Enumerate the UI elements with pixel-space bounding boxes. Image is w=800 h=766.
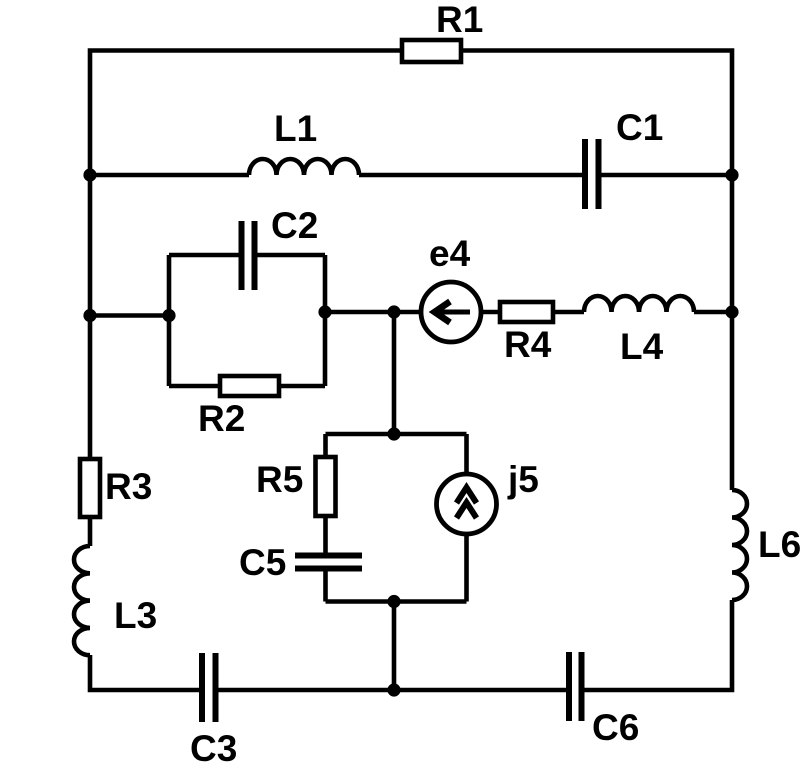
- wire: row3 right segment (block to R4/L4): [325, 310, 584, 315]
- junction: bottom wire center node: [387, 683, 400, 696]
- wire: parallel block C2/R2 bottom edge: [169, 384, 325, 389]
- capacitor C6: [569, 652, 582, 721]
- junction: J5 block top node: [387, 427, 400, 440]
- wire: bottom-left corner segment: [90, 655, 199, 690]
- junction: right x row3: [725, 305, 738, 318]
- svg-text:R2: R2: [198, 398, 245, 439]
- svg-text:C5: C5: [239, 542, 286, 583]
- wire: outer frame (left vertical top, top side, right vertical top): [90, 51, 732, 547]
- current source J5: [437, 474, 497, 534]
- junction: J5 block bottom node: [387, 595, 400, 608]
- wire: J5 block bottom edge: [326, 599, 467, 604]
- wire: bottom center segment: [219, 688, 567, 693]
- wire: L4 to right vertical: [694, 310, 732, 315]
- svg-text:C3: C3: [190, 728, 237, 766]
- inductor L6: [732, 490, 747, 600]
- svg-text:j5: j5: [507, 459, 539, 500]
- svg-text:C1: C1: [616, 107, 663, 148]
- wire: J5 block left edge upper: [323, 434, 328, 553]
- voltage source e4: [421, 282, 481, 342]
- J5 arrows: [457, 488, 477, 519]
- wire: parallel block C2/R2 left edge: [167, 255, 172, 386]
- resistor R1: [402, 40, 461, 62]
- wire: bottom-right corner segment: [585, 600, 733, 690]
- e4 arrow: [436, 310, 470, 315]
- wire: center vertical upper (node to J5 block): [392, 312, 397, 434]
- junction: right x C1 row: [725, 168, 738, 181]
- junction: center node row3: [387, 305, 400, 318]
- resistor R3: [80, 459, 100, 517]
- junction: C2/R2 block left node: [162, 309, 175, 322]
- svg-text:C6: C6: [592, 707, 639, 748]
- svg-text:L3: L3: [114, 595, 157, 636]
- wire: L1 row left segment: [90, 173, 249, 178]
- svg-text:R1: R1: [436, 0, 483, 40]
- wire: center vertical lower (J5 block to bottom): [392, 602, 397, 691]
- wire: C1 to right vertical: [602, 173, 733, 178]
- svg-text:L6: L6: [758, 524, 800, 565]
- junction: C2/R2 block right node: [318, 305, 331, 318]
- junction: left x L1 row: [83, 168, 96, 181]
- inductor L3: [74, 546, 90, 655]
- wire: L1 to C1: [359, 173, 582, 178]
- wire: J5 block right edge: [464, 434, 469, 602]
- capacitor C2: [242, 221, 255, 290]
- wire: row3 left segment: [90, 313, 169, 318]
- inductor L1: [249, 159, 359, 175]
- wire: parallel block C2/R2 top edge: [169, 253, 325, 258]
- svg-text:R3: R3: [105, 466, 152, 507]
- svg-text:L4: L4: [620, 326, 664, 367]
- wire: parallel block C2/R2 right edge: [323, 255, 328, 386]
- wire: J5 block top edge: [326, 432, 467, 437]
- inductor L4: [584, 296, 694, 312]
- svg-text:e4: e4: [429, 233, 471, 274]
- capacitor C5: [295, 556, 362, 569]
- resistor R4: [500, 302, 553, 322]
- resistor R2: [220, 376, 279, 396]
- svg-text:C2: C2: [271, 205, 318, 246]
- capacitor C3: [202, 653, 216, 722]
- svg-text:R4: R4: [504, 324, 552, 365]
- svg-text:L1: L1: [274, 108, 317, 149]
- junction: left x row3: [83, 309, 96, 322]
- capacitor C1: [585, 139, 599, 209]
- resistor R5: [316, 457, 336, 516]
- svg-text:R5: R5: [256, 459, 303, 500]
- wire: J5 block left edge lower: [323, 571, 328, 602]
